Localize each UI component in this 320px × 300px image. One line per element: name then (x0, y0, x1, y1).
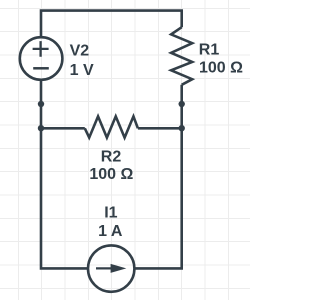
svg-text:100 Ω: 100 Ω (199, 59, 243, 76)
svg-text:R1: R1 (199, 41, 220, 58)
svg-text:1 A: 1 A (98, 223, 123, 240)
wire R2 left lead (41, 127, 85, 130)
node junction dot left upper (38, 101, 44, 107)
voltage source V2 (20, 37, 63, 80)
resistor R2 (85, 116, 138, 137)
node junction dot left lower (R2 tap) (38, 125, 44, 131)
node junction dot right upper (179, 101, 185, 107)
current source I1 (88, 245, 134, 291)
node junction dot right lower (R2 tap) (179, 125, 185, 131)
svg-text:I1: I1 (104, 205, 117, 222)
wire left: V2 bottom down to bottom-left corner then to I1 (41, 79, 89, 268)
svg-text:V2: V2 (70, 43, 90, 60)
wire top loop: V2 top to R1 top (41, 11, 182, 38)
wire R2 right lead (138, 127, 182, 130)
svg-text:100 Ω: 100 Ω (89, 166, 133, 183)
wire right: R1 bottom down to bottom-right corner then to I1 (134, 85, 182, 269)
svg-text:R2: R2 (101, 148, 122, 165)
resistor R1 (171, 27, 192, 85)
svg-text:1 V: 1 V (70, 62, 94, 79)
